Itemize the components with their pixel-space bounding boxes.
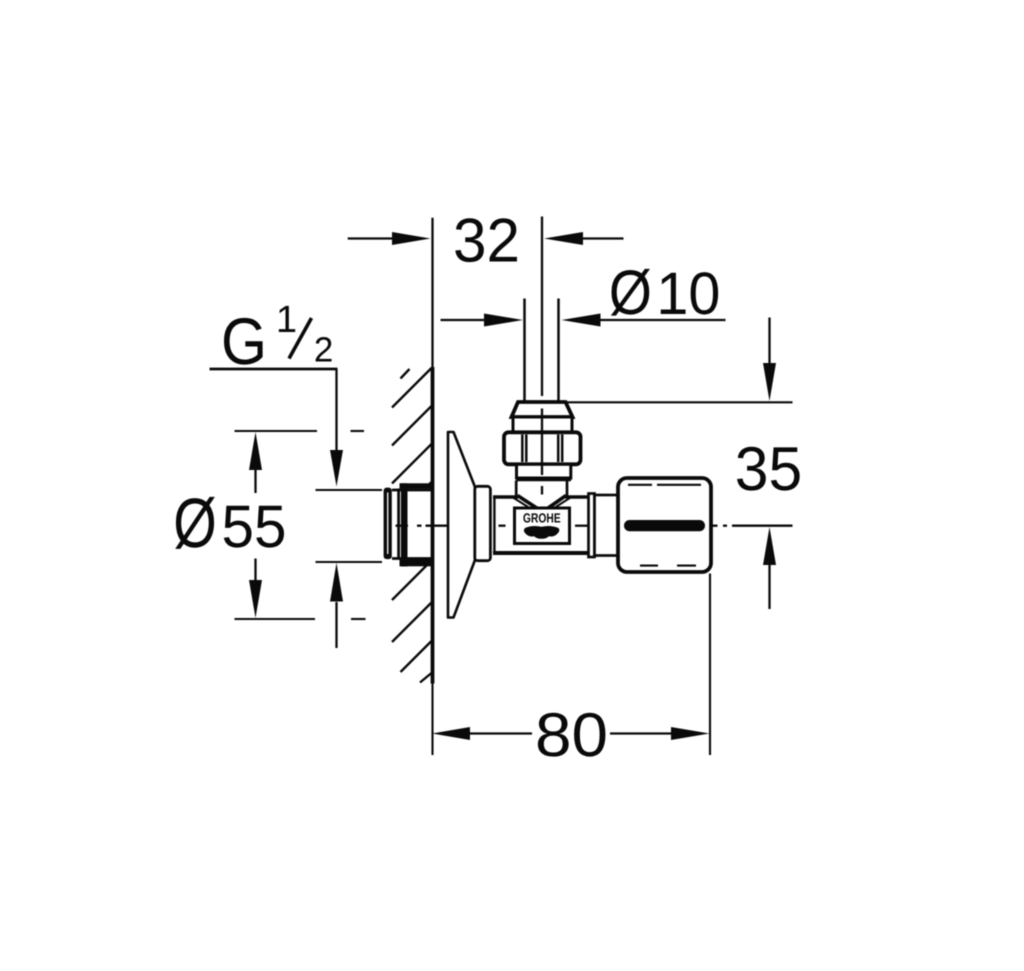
svg-text:G: G <box>221 304 267 378</box>
G 1/2 leader down arrow <box>335 369 337 450</box>
dim 32 line left <box>348 237 392 239</box>
funnel V <box>513 496 571 512</box>
svg-text:Ø: Ø <box>609 258 652 328</box>
handle top chamfer line <box>628 484 652 486</box>
dim 35 down arrow <box>768 318 770 364</box>
dim 10 arrow right <box>562 314 601 327</box>
svg-text:Ø: Ø <box>173 484 217 562</box>
GROHE label box <box>515 508 570 544</box>
wall line <box>431 218 433 367</box>
bonnet flange <box>589 494 595 558</box>
fitting bottom edge <box>516 477 571 481</box>
pipe <box>523 299 526 402</box>
dim 10 arrow left <box>484 314 523 327</box>
fitting lower band <box>517 464 571 478</box>
G 1/2 denominator 2 <box>316 337 332 361</box>
thread top extension line <box>316 489 383 491</box>
thread bottom extension line <box>316 561 383 563</box>
fitting neck <box>515 481 518 497</box>
wall hatching <box>392 368 432 683</box>
dim 55 bottom extension line <box>235 618 316 620</box>
GROHE wordmark <box>523 513 560 522</box>
valve body <box>492 496 590 555</box>
thread G1/2 nipple <box>384 483 431 566</box>
svg-text:35: 35 <box>735 435 803 504</box>
horizontal centerline <box>396 525 793 527</box>
G 1/2 underline <box>210 368 338 371</box>
svg-text:32: 32 <box>453 207 520 276</box>
escutcheon bell <box>448 432 475 618</box>
bell rim <box>475 486 491 560</box>
dim 80 right arrow <box>610 732 671 734</box>
G 1/2 fraction slash <box>289 318 312 359</box>
G 1/2 numerator 1 <box>279 306 295 332</box>
compression fitting cap <box>512 402 573 417</box>
hex facet lines <box>522 435 562 463</box>
handle <box>618 478 711 572</box>
dim 80 left arrow <box>432 727 470 740</box>
svg-text:55: 55 <box>222 493 287 560</box>
svg-text:80: 80 <box>535 701 608 770</box>
dim 10 line left <box>441 319 485 321</box>
handle grip bar <box>624 520 705 531</box>
dim 35 extension line <box>566 401 793 403</box>
dim 55 down arrow <box>254 559 256 581</box>
dim 55 top extension line <box>235 430 318 432</box>
dim 32 arrow right <box>544 232 583 245</box>
svg-text:10: 10 <box>656 260 720 327</box>
GROHE fan logo <box>524 526 559 539</box>
fitting hex nut <box>504 432 581 464</box>
dim 80 right extension line <box>709 574 711 756</box>
handle bottom chamfer line <box>640 565 658 567</box>
G 1/2 leader up arrow <box>330 563 343 602</box>
pipe centerline vertical <box>541 217 543 495</box>
dim 35 up arrow <box>763 527 776 565</box>
dim 32 arrow left <box>392 232 431 245</box>
fitting upper band <box>513 417 572 432</box>
stem <box>595 495 619 556</box>
dim 55 up arrow <box>249 432 262 470</box>
